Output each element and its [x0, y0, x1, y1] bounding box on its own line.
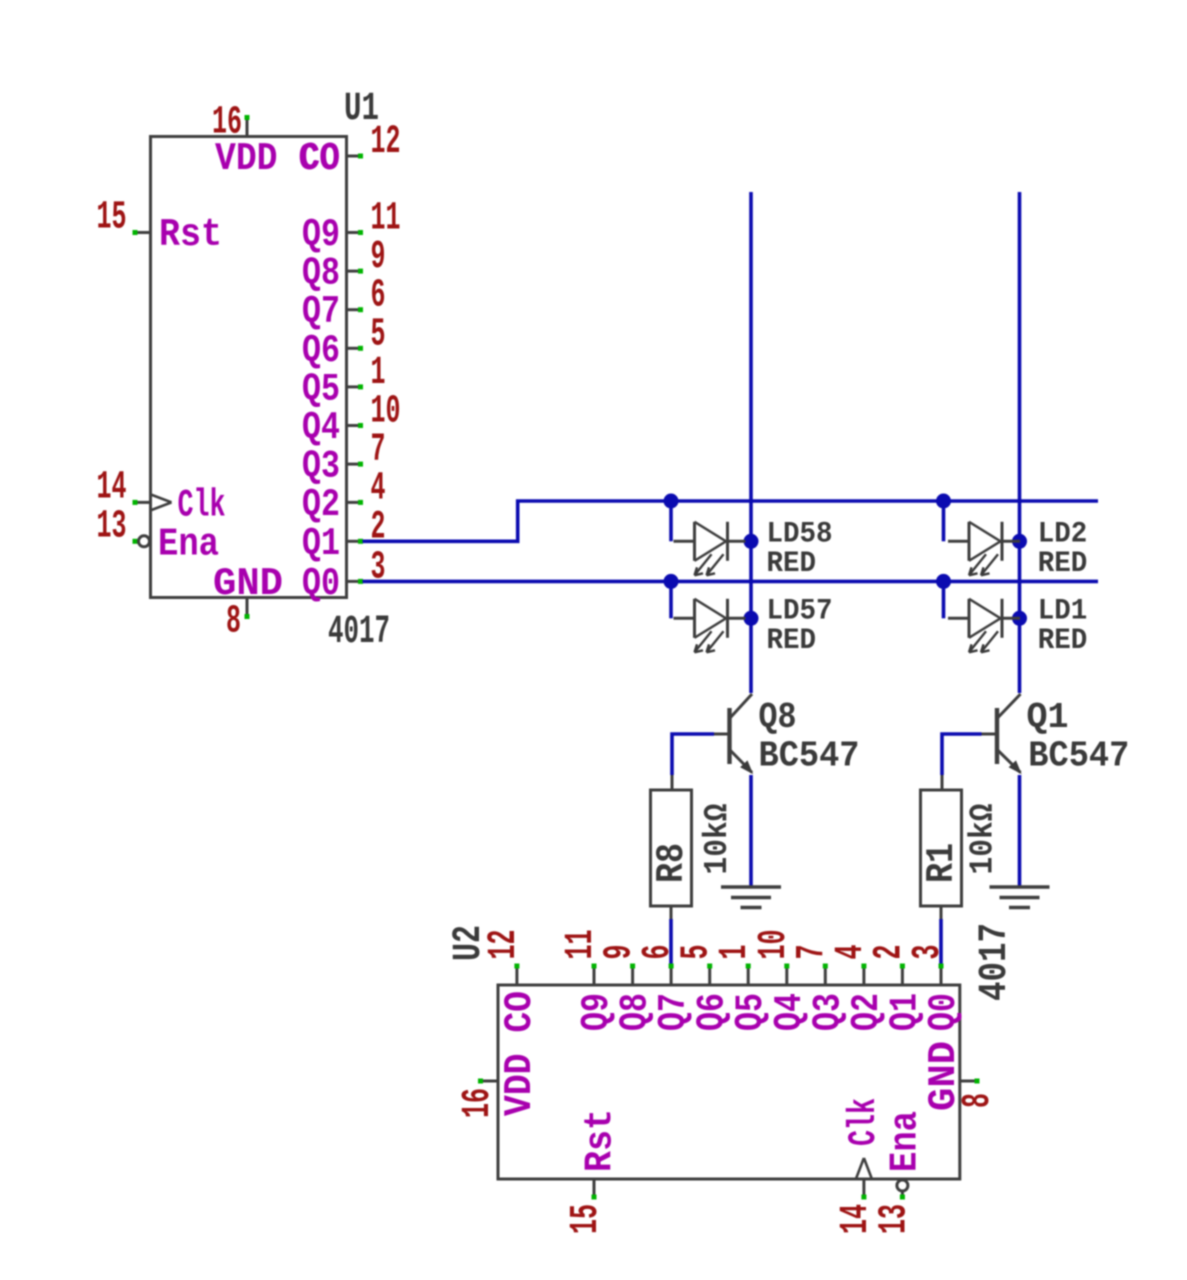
svg-text:U2: U2: [447, 925, 492, 961]
svg-text:13: 13: [97, 504, 127, 549]
svg-text:Q2: Q2: [302, 483, 340, 527]
svg-text:16: 16: [456, 1088, 501, 1118]
svg-text:8: 8: [226, 600, 241, 645]
svg-text:Rst: Rst: [579, 1109, 623, 1172]
svg-text:Q9: Q9: [575, 993, 619, 1031]
svg-text:Rst: Rst: [159, 213, 222, 257]
svg-text:VDD CO: VDD CO: [215, 137, 340, 181]
svg-text:13: 13: [872, 1204, 917, 1234]
svg-text:Q2: Q2: [845, 993, 889, 1031]
svg-text:Q0: Q0: [922, 993, 966, 1031]
svg-text:GND: GND: [213, 562, 283, 606]
svg-text:Q1: Q1: [302, 522, 340, 566]
svg-text:15: 15: [97, 196, 127, 241]
svg-text:R8: R8: [650, 843, 694, 883]
svg-text:Clk: Clk: [178, 483, 226, 527]
svg-text:Q3: Q3: [806, 993, 850, 1031]
svg-text:3: 3: [906, 945, 951, 960]
svg-text:Q1: Q1: [883, 993, 927, 1031]
svg-text:U1: U1: [344, 87, 379, 132]
svg-text:Q5: Q5: [729, 993, 773, 1031]
svg-text:Q8: Q8: [614, 993, 658, 1031]
svg-text:BC547: BC547: [759, 736, 860, 777]
svg-text:Q4: Q4: [768, 993, 812, 1031]
svg-text:4017: 4017: [328, 610, 390, 655]
svg-text:Ena: Ena: [158, 522, 219, 566]
svg-text:GND: GND: [922, 1041, 966, 1111]
svg-text:RED: RED: [767, 624, 817, 658]
svg-text:3: 3: [371, 545, 386, 590]
svg-text:Q7: Q7: [652, 993, 696, 1031]
svg-text:10kΩ: 10kΩ: [965, 804, 1002, 875]
svg-text:Q4: Q4: [302, 406, 340, 450]
svg-text:BC547: BC547: [1028, 736, 1129, 777]
svg-text:VDD CO: VDD CO: [498, 991, 542, 1116]
svg-text:RED: RED: [1038, 624, 1088, 658]
svg-text:Q1: Q1: [1027, 697, 1069, 738]
svg-text:Q0: Q0: [302, 562, 340, 606]
svg-text:Q5: Q5: [302, 367, 340, 411]
svg-text:10kΩ: 10kΩ: [699, 804, 736, 875]
svg-text:4017: 4017: [973, 923, 1018, 1001]
svg-text:Q6: Q6: [691, 993, 735, 1031]
svg-text:R1: R1: [920, 843, 964, 883]
svg-text:Q6: Q6: [302, 329, 340, 373]
svg-text:Clk: Clk: [842, 1098, 886, 1146]
svg-text:Ena: Ena: [884, 1111, 928, 1172]
svg-text:RED: RED: [767, 547, 817, 581]
svg-text:Q8: Q8: [759, 697, 797, 738]
svg-text:2: 2: [371, 505, 386, 550]
svg-text:15: 15: [564, 1204, 609, 1234]
svg-text:Q7: Q7: [302, 290, 340, 334]
svg-text:RED: RED: [1038, 547, 1088, 581]
svg-text:Q9: Q9: [302, 213, 340, 257]
svg-text:Q8: Q8: [302, 252, 340, 296]
